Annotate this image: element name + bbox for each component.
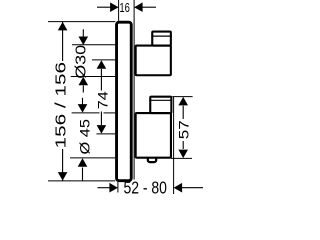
dim Ø45: top tail — [82, 98, 84, 105]
dim 57: dimension line lower segment — [182, 141, 184, 149]
dim Ø30: bottom tail — [82, 86, 84, 93]
dim 74: top arrow — [97, 60, 107, 68]
dim Ø45: bottom extension line — [70, 157, 115, 159]
dim 57: bottom arrow — [178, 150, 188, 159]
dim Ø30: top extension line — [72, 44, 115, 46]
lower valve body cap seam — [149, 99, 172, 101]
escutcheon plate (side view) — [117, 22, 132, 181]
svg-text:156 / 156: 156 / 156 — [53, 62, 69, 149]
dim 74: top extension line — [92, 59, 115, 61]
dim Ø45: bottom arrow — [78, 158, 88, 167]
dim 156/156: bottom arrow — [58, 172, 68, 181]
svg-text:Ø 45: Ø 45 — [76, 119, 92, 155]
svg-text:52 - 80: 52 - 80 — [123, 178, 167, 198]
dim 16: right arrow — [134, 2, 143, 12]
svg-text:57: 57 — [176, 120, 192, 139]
dim 52-80: left arrow — [109, 183, 118, 193]
svg-text:Ø30: Ø30 — [74, 45, 90, 79]
top valve body upper block — [152, 32, 171, 46]
dim 16: right tail — [142, 6, 156, 8]
dim 16: left arrow — [110, 2, 119, 12]
dim 52-80: right arrow — [174, 183, 183, 193]
dim 156/156: top arrow — [58, 22, 68, 31]
dim 57: top extension line — [172, 96, 192, 98]
dim 52-80: left tail — [98, 187, 111, 189]
svg-text:16: 16 — [119, 0, 130, 15]
dim 74: bottom arrow — [97, 125, 107, 134]
dim 156/156: top extension line — [48, 21, 115, 23]
dim 57: top arrow — [178, 97, 188, 106]
dim Ø45: top extension line right segment — [104, 112, 116, 114]
lower valve body upper block — [150, 97, 171, 113]
dim Ø45: bottom tail — [82, 168, 84, 181]
dim 16: left tail — [97, 6, 111, 8]
dim 74: dimension line lower segment — [100, 112, 102, 126]
top valve body cap seam — [151, 35, 172, 37]
dim 16: left extension line — [118, 0, 120, 21]
dim 52-80: right tail — [181, 187, 203, 189]
dim Ø45: top arrow — [78, 104, 88, 113]
dim 74: bottom extension line — [97, 133, 116, 135]
dim 57: bottom extension line — [171, 157, 192, 159]
lower valve body bottom tab — [148, 155, 156, 162]
dim 52-80: left extension line — [117, 182, 119, 193]
dim 156/156: bottom extension line — [48, 180, 115, 182]
dim 52-80: right extension line — [173, 97, 175, 194]
dim Ø30: top arrow — [79, 37, 89, 46]
dim 57: dimension line upper segment — [182, 106, 184, 119]
dim 74: dimension line upper segment — [100, 69, 102, 91]
dim Ø30: bottom extension line — [71, 76, 116, 78]
svg-text:74: 74 — [96, 91, 111, 110]
lower valve body main block — [136, 113, 171, 158]
top valve body main block — [136, 46, 171, 76]
dim 156/156: dimension line lower segment — [62, 149, 64, 181]
wall line — [133, 0, 135, 180]
dim 156/156: dimension line upper segment — [62, 22, 64, 61]
dim Ø45: top extension line left segment — [72, 112, 100, 114]
dim Ø30: bottom arrow — [79, 77, 89, 86]
dim Ø30: top tail — [82, 29, 84, 38]
